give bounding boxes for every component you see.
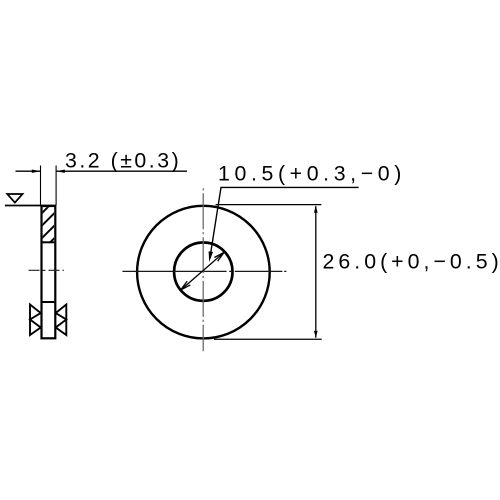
svg-text:3.2 (±0.3): 3.2 (±0.3) <box>65 149 179 173</box>
